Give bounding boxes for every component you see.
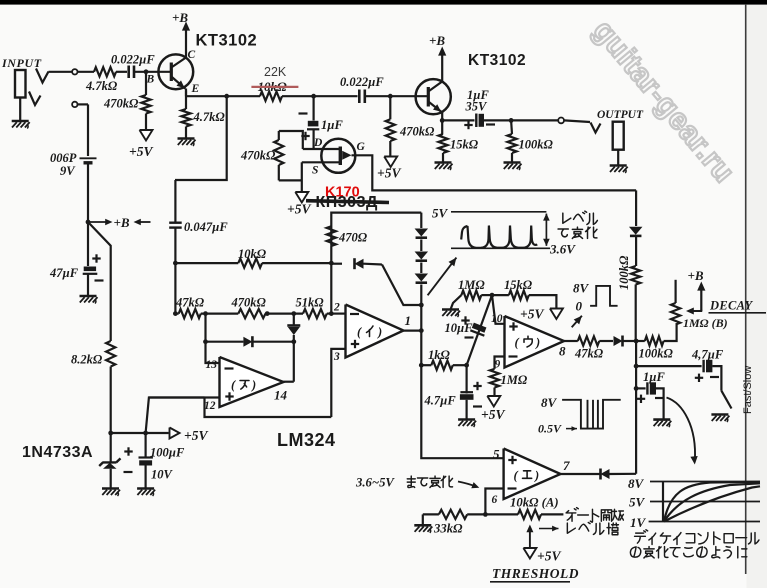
svg-text:+B: +B [114,215,130,230]
wire down to 47k row [174,263,176,314]
graph 1V [630,515,760,530]
wire 047 top [174,180,176,223]
svg-text:S: S [312,165,318,177]
svg-text:): ) [535,336,540,350]
svg-text:1N4733A: 1N4733A [22,444,93,461]
wire rail top [635,190,637,226]
label 10kOhm fb [238,247,267,261]
svg-text:51kΩ: 51kΩ [296,296,325,310]
svg-text:0: 0 [576,299,583,314]
resistor 47k out [578,336,600,345]
ground 100k out [504,163,522,171]
svg-text:G: G [357,141,366,153]
label 3.6V [549,242,576,257]
wire 51k to pin2 [327,313,332,315]
+5V triangle 15k [550,309,563,320]
wire E2 to 15k [441,120,444,134]
transistor Q1 KT3102 [158,54,193,96]
diode row mid [206,336,294,347]
label +5V Q1 base [129,144,153,159]
label G [357,141,366,153]
label 470kOhm row [231,296,267,310]
node diode row right [291,339,296,344]
red strikethrough 10k [251,86,298,88]
label 15kOhm fb [504,278,533,292]
node rail 388 [634,386,639,391]
graph 8V [628,476,760,491]
diode rail top [629,227,643,236]
node 10k row [173,261,178,266]
wire R22K to node [282,95,314,97]
label 100kOhm rot [617,255,631,290]
svg-text:1MΩ (B): 1MΩ (B) [683,316,728,330]
label 9 [495,359,501,371]
graph step edge [662,482,664,522]
label 470kOhm Q2 [399,125,435,139]
resistor 100k out [507,134,516,153]
svg-text:8V: 8V [628,476,645,491]
node 100uF [143,431,148,436]
level change arrow [543,213,550,246]
svg-text:E: E [191,83,200,95]
svg-text:C: C [188,49,196,61]
jfet drain wire [303,148,340,150]
label 100kOhm decay [639,347,674,361]
label 470Ohm [338,231,368,245]
label 0.022uF second [340,75,384,89]
diode chain wire [420,213,422,305]
capacitor 100uF [124,433,153,472]
svg-text:D: D [313,137,323,149]
svg-text:15kΩ: 15kΩ [450,138,479,152]
svg-text:+5V: +5V [520,307,544,322]
wire cap to 100k node [484,119,511,121]
resistor 51k [303,309,327,318]
svg-text:33kΩ: 33kΩ [433,522,463,536]
svg-text:5V: 5V [432,206,449,221]
svg-text:1V: 1V [630,515,647,530]
wire R to +5V tri [145,114,147,131]
label 4.7kOhm input [85,79,118,93]
wire 47k to 470k [201,313,239,315]
wire node to R470k2 [389,96,391,119]
wire 15k ground [442,153,444,163]
svg-text:1µF: 1µF [643,370,665,384]
node diode branch [291,311,296,316]
label 1uF jfet [321,118,343,132]
node Q2 base [388,94,393,99]
curved annotation arrow [667,398,698,465]
graph curve mid [664,483,760,521]
resistor 470k base Q1 [141,95,150,114]
wire 100k to node [635,284,637,341]
+5V triangle Q2 [384,157,397,168]
node 10k-diode [329,261,334,266]
svg-text:): ) [251,378,256,392]
node 47k row [173,311,178,316]
zener 1N4733A [99,433,120,489]
node pin6 rail [483,512,488,517]
+5V triangle Q1 base [140,130,153,141]
diode chain D3 [415,274,429,283]
wire 047 bottom [174,228,176,264]
wire R470k2 to +5V [389,141,391,157]
line 3.6V [451,247,550,249]
jfet K170 KP303D [321,139,355,173]
capacitor 0.047uF [169,223,182,228]
wire terminal to R1 [78,71,95,73]
wire pin12 to rail [205,398,332,418]
svg-text:7: 7 [563,458,570,473]
resistor 470R [327,226,336,263]
node 100k out [509,118,514,123]
node zener [108,431,113,436]
svg-text:8.2kΩ: 8.2kΩ [71,353,103,367]
terminal circle in [72,69,77,74]
+5V triangle jfet [295,192,308,203]
svg-text:0.022µF: 0.022µF [111,53,155,67]
label KT3102 second [468,52,526,69]
watermark guitar-gear.ru [587,14,741,189]
wire node to 100k [510,120,513,134]
label 14 [274,388,288,403]
label 8.2kOhm [71,353,103,367]
wire battery to +B node [87,163,89,222]
resistor 10k fb [238,259,262,268]
svg-text:8V: 8V [573,281,590,296]
pulse 0 label [576,299,583,314]
ground 33k [414,514,432,532]
label 10V [151,468,174,482]
node after 470k [265,311,270,316]
op-amp U1a [220,357,284,407]
+5V triangle threshold [523,548,561,564]
notch 8V label [541,395,558,410]
graph curve slow [664,486,760,521]
label decay control2 [630,547,746,558]
top border bar [0,0,767,5]
label 47kOhm out [574,347,604,361]
svg-text:100kΩ: 100kΩ [519,138,554,152]
input jack tip contact [36,69,49,83]
wire rail 388-473 [635,388,637,473]
resistor 100k rail [631,266,640,284]
label 47uF [49,266,79,280]
resistor 1M top [461,291,481,300]
node B Q1 [144,69,149,74]
wire rail 366-388 [635,366,637,388]
wire 1uF to D [313,129,315,149]
svg-text:1MΩ: 1MΩ [458,278,485,292]
node pin2 [329,311,334,316]
wire to output terminal [511,119,558,121]
label 1 [405,313,412,328]
wire diode row to out14 [284,342,294,382]
wire 100uF to ground [145,466,147,489]
svg-text:0.022µF: 0.022µF [340,75,384,89]
input jack [15,70,26,121]
svg-text:0.5V: 0.5V [538,422,562,436]
svg-text:47kΩ: 47kΩ [175,296,205,310]
svg-text:): ) [534,469,539,483]
node pin10 [490,293,495,298]
wire pin6 [485,489,503,515]
capacitor 1uF rail [636,382,664,403]
label 1kOhm [428,348,451,362]
resistor 47k [175,309,200,318]
pot 10kA [485,510,563,519]
svg-text:35V: 35V [465,100,489,114]
svg-text:DECAY: DECAY [709,299,754,313]
label 10kOhm struck [258,79,288,94]
pulse waveform [590,286,618,306]
svg-text:Fast/Slow: Fast/Slow [742,366,754,414]
svg-text:10kΩ (A): 10kΩ (A) [510,496,559,510]
svg-text:+5V: +5V [287,202,311,217]
label D [313,137,323,149]
svg-text:3.6V: 3.6V [549,242,576,257]
svg-text:4,7µF: 4,7µF [691,348,724,362]
diode vertical a [287,314,300,342]
wire 10k row right [262,262,331,264]
svg-text:OUTPUT: OUTPUT [597,109,644,121]
wire chain to out1 [420,305,422,331]
wire out7 [561,473,600,475]
resistor 15k [438,134,447,153]
label 4.7uF [424,394,457,408]
label 1uF rail [643,370,665,384]
wire diode out7 to rail [610,473,637,475]
svg-text:13: 13 [206,359,218,371]
svg-text:+5V: +5V [184,428,208,443]
op-amp U1b [346,305,404,358]
node 4.7uF [464,363,469,368]
label +5V 15k [520,307,544,322]
svg-text:6: 6 [492,494,498,506]
node E rail [224,94,229,99]
label 10uF [445,316,474,337]
label 1N4733A [22,444,93,461]
svg-text:5: 5 [493,447,500,462]
transistor Q2 KT3102 [416,79,451,114]
label 006P [50,151,77,165]
wire E2 to cap 1uF35V [442,119,474,121]
label op a paren [231,378,256,392]
label decay control [635,530,759,545]
wire out8 [564,340,578,342]
svg-text:470kΩ: 470kΩ [240,149,276,163]
resistor 4.7k emitter [181,109,190,127]
wire 47k to diode [599,340,613,342]
ground 47uF [80,296,98,304]
wire node to C2 [314,95,358,97]
label E [191,83,200,95]
label THRESHOLD [490,566,579,582]
capacitor 0.022uF input [129,66,134,79]
+5V triangle pin9 [487,396,500,407]
ground 1uF rail [653,420,671,428]
pulse 8V label [573,281,590,296]
svg-text:2: 2 [333,302,340,314]
label INPUT [1,56,42,70]
wire 1M to node [481,294,492,296]
node after 47k [203,311,208,316]
resistor 470k jfet loop [274,131,303,192]
wire cap to switch [712,366,721,391]
wire 1M to +5V tri [493,388,495,397]
node 1k row [419,363,424,368]
wire out1 to 1k [420,331,422,366]
svg-text:100kΩ: 100kΩ [617,255,631,290]
svg-text:10V: 10V [151,468,174,482]
terminal circle out [558,118,564,124]
label 3 [333,351,340,363]
label 2 [333,302,340,314]
wire 15k to +5V [529,295,557,308]
ground 1M left [442,295,461,317]
label 1MB [683,316,728,330]
ground switch [711,415,729,423]
switch fast slow [721,391,731,409]
wire to ground Q1 E [185,127,187,139]
label gate open [566,508,623,522]
svg-text:3.6~5V: 3.6~5V [355,476,395,490]
jfet source wire [302,161,340,163]
graph 5V [629,495,760,510]
svg-text:47kΩ: 47kΩ [574,347,604,361]
capacitor 4.7uF decay [695,360,719,382]
label OUTPUT [597,109,644,121]
svg-text:470kΩ: 470kΩ [231,296,267,310]
ground zener [102,489,120,497]
line 5V [451,211,546,213]
right page edge line [745,4,747,574]
diode to node K [331,258,382,269]
label 8 [559,344,566,359]
label +5V Q2 [377,166,401,181]
svg-text:10: 10 [491,313,503,325]
label +5V pin9 [481,407,505,422]
label B [146,74,155,86]
label level kana [558,211,597,238]
wire E rail [186,95,227,97]
svg-text:4.7kΩ: 4.7kΩ [85,79,118,93]
terminal circle ring [72,102,77,107]
label op e paren [514,469,540,483]
label 10kA [510,496,559,510]
label 5V wave [432,206,449,221]
wire 47uF to ground [87,274,89,296]
node Q2 emitter [440,118,445,123]
svg-text:47µF: 47µF [49,266,79,280]
wire 33k to node [467,513,485,515]
node out1 [419,328,424,333]
wire pin10 stub [492,295,505,324]
svg-text:LM324: LM324 [277,430,336,450]
svg-text:1kΩ: 1kΩ [428,348,451,362]
label 47uF decay [691,348,724,362]
svg-text:0.047µF: 0.047µF [184,220,228,234]
wire E down [185,91,187,110]
label 1MOhm pin9 [501,373,528,387]
wire terminal to jack [564,120,590,122]
supply +B Q1 [172,10,190,58]
wire diode to rail [624,340,637,342]
svg-text:KT3102: KT3102 [468,52,526,69]
wire node down to 0.047 line [175,96,227,180]
resistor 22K [260,92,282,101]
svg-text:15kΩ: 15kΩ [504,278,533,292]
diode out8 [614,336,623,347]
wire C1 to B node [134,71,171,73]
waveform decay spikes [461,226,537,248]
ground 4.7uF [458,420,476,428]
label 0.022uF input [111,53,155,67]
annotation 3.6-5V [355,476,453,490]
label 15kOhm [450,138,479,152]
svg-text:1: 1 [405,313,412,328]
svg-text:+B: +B [172,10,188,25]
resistor 470k row [238,309,265,318]
diode out7 [601,469,610,480]
svg-text:+5V: +5V [377,166,401,181]
resistor 4.7k input [94,67,116,76]
svg-text:470kΩ: 470kΩ [103,97,139,111]
input jack ring contact [29,92,41,106]
diode chain D2 [415,252,429,261]
label 100uF [150,446,185,460]
label op i paren [357,325,382,339]
svg-text:THRESHOLD: THRESHOLD [492,566,579,581]
label 6 [492,494,498,506]
node rail 366 [634,364,639,369]
resistor 33k [423,510,467,519]
wire out1 to pin5 [421,365,503,458]
capacitor 1uF 35V [464,114,495,130]
wire capnode up to pin12 line [146,398,205,434]
label 10 [491,313,503,325]
wire R1 to C1 [116,71,127,73]
label 33kOhm [433,522,463,536]
label 12 [204,400,216,412]
label 22K [264,65,287,79]
svg-text:100µF: 100µF [150,446,185,460]
wire pin3 vertical [331,349,345,417]
wire rail to 100k [635,237,637,267]
svg-text:22K: 22K [264,65,287,79]
capacitor 0.022uF second [359,90,365,104]
label 4.7kOhm emitter [193,110,226,124]
resistor 470k Q2 [386,119,395,141]
svg-text:10kΩ: 10kΩ [238,247,267,261]
wire to Q2 base [390,95,428,97]
ground 15k [435,163,453,171]
capacitor 47uF [83,254,104,280]
svg-text:100kΩ: 100kΩ [639,347,674,361]
label 9V [60,164,76,178]
wire pin9 [495,357,505,369]
svg-text:+5V: +5V [129,144,153,159]
wire tip to terminal [49,71,73,73]
svg-text:): ) [377,325,382,339]
diode chain D1 [415,229,429,238]
svg-text:4.7kΩ: 4.7kΩ [193,110,226,124]
label 51kOhm [296,296,325,310]
capacitor 1uF jfet [299,114,320,141]
wire 4.7uF ground [466,400,468,420]
svg-text:470kΩ: 470kΩ [399,125,435,139]
output jack contact [591,123,601,133]
